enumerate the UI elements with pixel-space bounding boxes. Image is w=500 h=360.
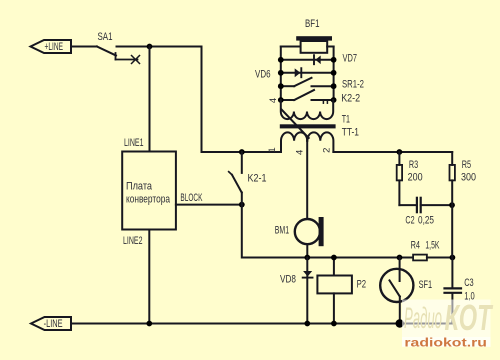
relay coil P2 — [317, 258, 366, 324]
svg-text:R4: R4 — [411, 240, 420, 252]
capacitor C3 — [445, 258, 475, 324]
transformer T1 primary winding — [281, 100, 333, 119]
svg-text:200: 200 — [408, 171, 423, 183]
svg-text:SR1-2: SR1-2 — [342, 79, 364, 91]
node rail P2 — [331, 321, 337, 327]
svg-text:R3: R3 — [409, 159, 418, 171]
svg-text:1: 1 — [267, 147, 278, 152]
microphone BM1 — [275, 217, 324, 246]
wire pin2 to R3/R5 — [333, 151, 452, 153]
svg-text:SF1: SF1 — [419, 279, 433, 291]
svg-text:VD6: VD6 — [255, 69, 271, 81]
svg-text:VD8: VD8 — [280, 274, 296, 286]
svg-text:BF1: BF1 — [305, 18, 320, 30]
node R3 top — [397, 149, 403, 155]
node BM1 bottom — [304, 255, 310, 261]
transformer diagonal stroke — [282, 110, 309, 139]
connector +LINE (top left arrow) — [31, 40, 72, 53]
wire to transformer pin 1 — [202, 151, 282, 153]
wire BM1 to bottom wire — [306, 244, 308, 257]
svg-text:radiokot.ru: radiokot.ru — [404, 337, 487, 349]
transformer T1 secondary winding right (pins 4-2) — [307, 132, 333, 152]
node VD6 right — [331, 70, 337, 76]
diode VD8 — [280, 258, 313, 324]
resistor R4 1,5K — [411, 240, 453, 261]
node P2 top — [331, 255, 337, 261]
svg-text:+LINE: +LINE — [45, 41, 64, 53]
node VD7 left — [278, 57, 284, 63]
node SR1-2 right — [331, 83, 337, 89]
svg-text:VD7: VD7 — [343, 53, 358, 65]
converter board (Плата конвертора) — [122, 152, 176, 230]
svg-text:TT-1: TT-1 — [342, 127, 359, 139]
buzzer BF1 — [281, 18, 334, 53]
svg-text:300: 300 — [461, 171, 476, 183]
node VD7 right — [331, 57, 337, 63]
wire left rail of contact block — [280, 47, 282, 101]
svg-text:КОТ: КОТ — [445, 297, 494, 338]
wire SA1 to top right corner — [117, 46, 202, 48]
node rail VD8 — [304, 321, 310, 327]
wire BLOCK — [176, 204, 242, 206]
node K2-2 right — [331, 97, 337, 103]
resistor R3 200 — [397, 152, 423, 205]
node BLOCK junction — [239, 202, 245, 208]
svg-text:BM1: BM1 — [275, 224, 289, 236]
wire right rail of contact block — [333, 47, 335, 101]
switch K2-1 — [229, 152, 267, 205]
switch SA1 — [97, 31, 140, 64]
node rail SF1 — [396, 319, 404, 327]
transformer T1 secondary winding left (pins 1-4) — [281, 132, 307, 152]
node rail LINE2 — [146, 321, 152, 327]
watermark Радио КОТ — [404, 297, 493, 338]
svg-text:K2-1: K2-1 — [248, 173, 267, 185]
transformer T1 core — [280, 124, 336, 128]
svg-text:SA1: SA1 — [98, 31, 113, 43]
svg-text:K2-2: K2-2 — [341, 93, 360, 105]
svg-text:R5: R5 — [462, 159, 471, 171]
wire down to LINE1 — [149, 47, 151, 152]
diode VD6 — [255, 68, 334, 80]
contact SR1-2 — [281, 78, 364, 91]
svg-text:LINE2: LINE2 — [123, 235, 143, 247]
wire LINE2 down to bottom rail — [148, 230, 150, 324]
resistor R5 300 — [450, 152, 477, 258]
diode VD7 — [281, 53, 357, 65]
svg-text:P2: P2 — [357, 279, 367, 291]
node K2-1 top — [239, 149, 245, 155]
node VD6 left — [278, 70, 284, 76]
svg-text:конвертора: конвертора — [126, 194, 171, 206]
wire bottom rail — [71, 323, 452, 325]
wire from +LINE to SA1 — [71, 46, 97, 48]
contact K2-2 — [281, 90, 360, 105]
svg-text:2: 2 — [321, 148, 332, 153]
wire K2-1 down and along bottom of BM1 to R4 — [242, 205, 413, 258]
svg-text:C2: C2 — [405, 215, 414, 227]
svg-text:T1: T1 — [342, 113, 350, 125]
svg-text:LINE1: LINE1 — [124, 137, 144, 149]
svg-text:1,5K: 1,5K — [425, 240, 439, 252]
svg-text:BLOCK: BLOCK — [180, 192, 202, 204]
wire pin4 down to BM1 — [306, 141, 308, 219]
connector -LINE (bottom left arrow) — [31, 317, 71, 330]
node SR1-2 left — [278, 83, 284, 89]
svg-text:Плата: Плата — [126, 181, 153, 193]
node C3 top — [450, 255, 456, 261]
svg-text:0,25: 0,25 — [418, 215, 434, 227]
svg-text:-LINE: -LINE — [44, 318, 63, 330]
svg-text:C3: C3 — [464, 277, 474, 289]
node K2-2 left — [278, 97, 284, 103]
node C2/R5 junction — [449, 202, 455, 208]
svg-text:4: 4 — [294, 150, 305, 155]
svg-text:4: 4 — [268, 98, 279, 103]
wire top right corner down — [201, 47, 203, 153]
node top junction — [147, 44, 153, 50]
capacitor C2 0,25 — [399, 198, 452, 227]
svg-text:Радио: Радио — [404, 302, 442, 335]
node SF1 top — [397, 255, 403, 261]
dial contact SF1 — [380, 258, 432, 324]
watermark overlay — [402, 300, 491, 338]
